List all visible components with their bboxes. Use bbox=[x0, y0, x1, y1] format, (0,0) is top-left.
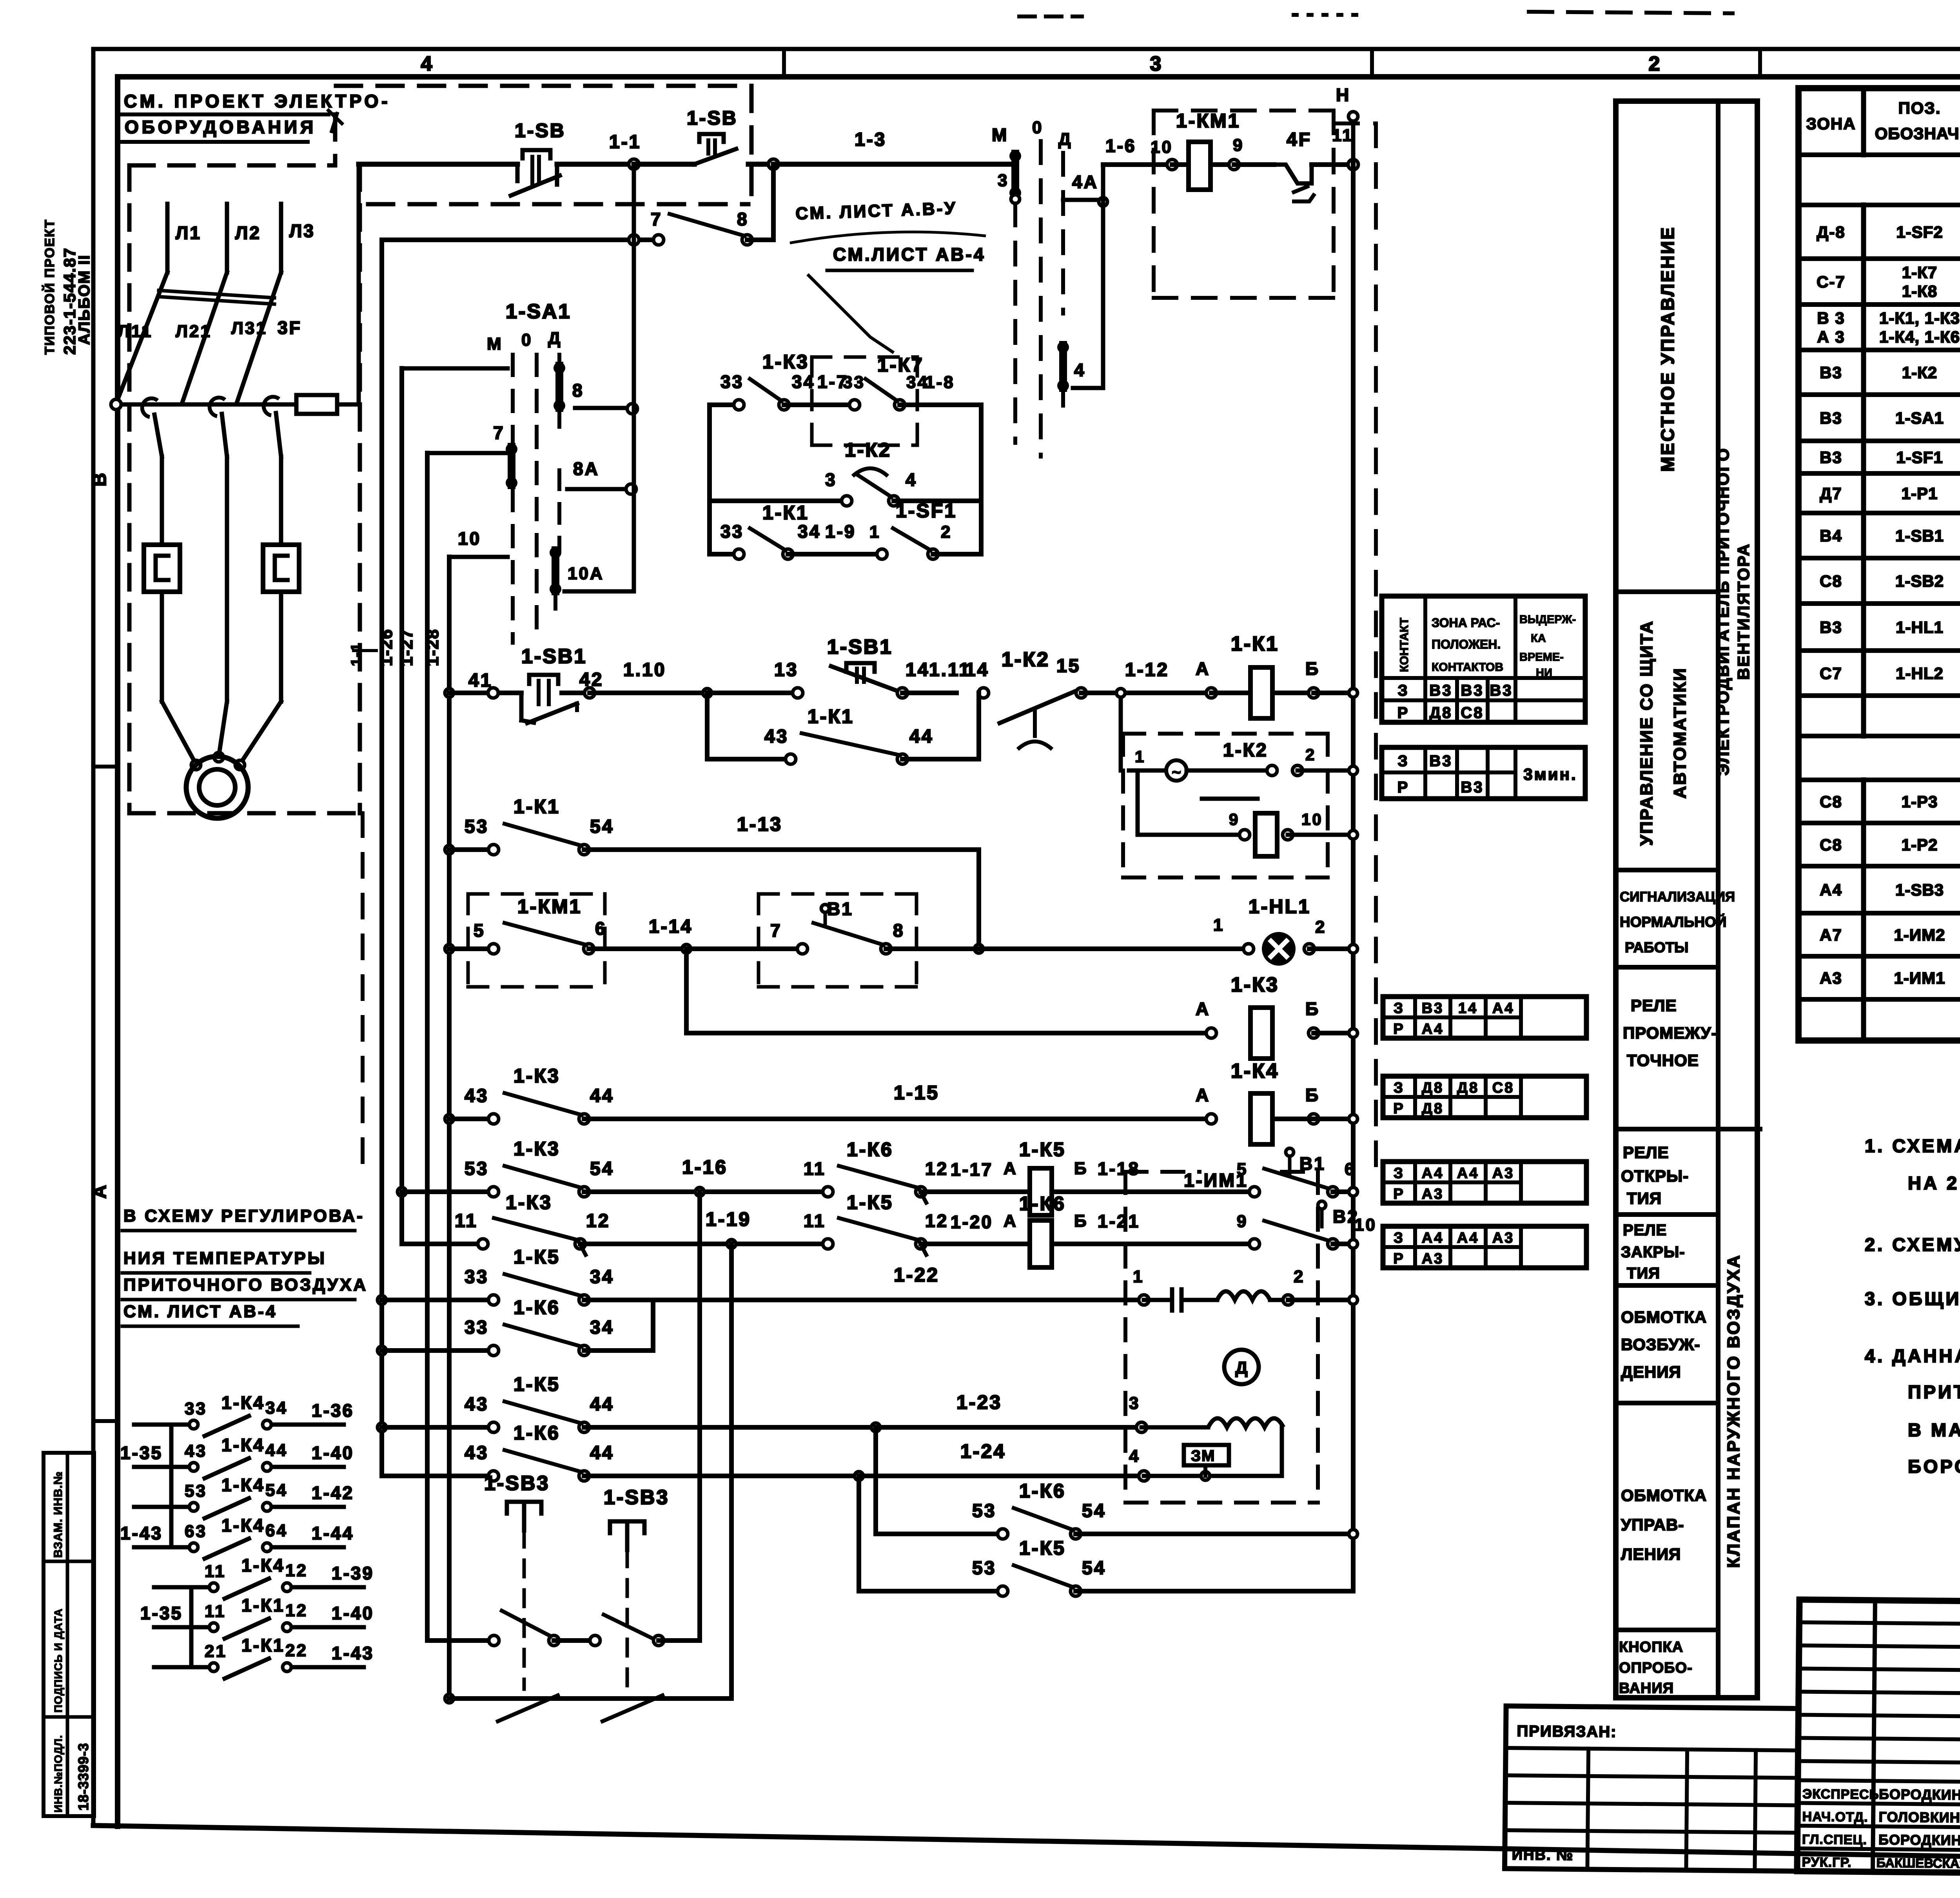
svg-text:4: 4 bbox=[1129, 1447, 1140, 1466]
svg-text:7: 7 bbox=[493, 422, 505, 443]
svg-text:4. ДАННАЯ СХЕМА ПРИМЕНИМА: 4. ДАННАЯ СХЕМА ПРИМЕНИМА ДЛЯ АВТОМАТИЗА… bbox=[1865, 1345, 1960, 1366]
svg-text:1-13: 1-13 bbox=[737, 813, 782, 835]
svg-text:53: 53 bbox=[185, 1481, 207, 1501]
svg-text:12: 12 bbox=[586, 1211, 610, 1231]
contact 8 (Д col) bbox=[555, 366, 563, 408]
svg-text:1-17: 1-17 bbox=[951, 1159, 993, 1180]
svg-text:БОРОДКИН: БОРОДКИН bbox=[1879, 1786, 1960, 1803]
svg-text:9: 9 bbox=[1233, 136, 1244, 155]
svg-text:1-44: 1-44 bbox=[312, 1523, 354, 1543]
svg-text:42: 42 bbox=[579, 669, 603, 690]
svg-text:ГЛ.СПЕЦ.: ГЛ.СПЕЦ. bbox=[1802, 1832, 1867, 1847]
svg-text:МЕСТНОЕ УПРАВЛЕНИЕ: МЕСТНОЕ УПРАВЛЕНИЕ bbox=[1657, 226, 1678, 471]
svg-text:22: 22 bbox=[285, 1641, 308, 1660]
motor feeder wires bbox=[154, 415, 162, 457]
svg-text:ВОЗБУЖ-: ВОЗБУЖ- bbox=[1621, 1335, 1700, 1354]
svg-text:ГОЛОВКИН: ГОЛОВКИН bbox=[1878, 1809, 1960, 1825]
svg-text:13: 13 bbox=[774, 660, 798, 680]
svg-text:ТИЯ: ТИЯ bbox=[1627, 1189, 1662, 1207]
svg-text:Д: Д bbox=[548, 329, 562, 348]
svg-text:1: 1 bbox=[1133, 1267, 1144, 1286]
svg-text:3: 3 bbox=[998, 171, 1009, 190]
svg-text:1-К3: 1-К3 bbox=[514, 1138, 560, 1160]
svg-text:11: 11 bbox=[804, 1211, 826, 1231]
svg-text:1-ИМ2: 1-ИМ2 bbox=[1894, 926, 1945, 944]
lower contacts of 1-SB3 bbox=[445, 1694, 454, 1703]
svg-text:З: З bbox=[1394, 1165, 1405, 1182]
svg-text:8: 8 bbox=[737, 209, 749, 229]
svg-text:АЛЬБОМ II: АЛЬБОМ II bbox=[76, 254, 93, 345]
svg-text:Л21: Л21 bbox=[176, 322, 212, 341]
sheet outer border bbox=[93, 47, 1960, 51]
rung 33 1-K3 34 / 1-K7 bbox=[710, 402, 739, 407]
svg-text:4: 4 bbox=[1074, 360, 1086, 380]
svg-text:1-28: 1-28 bbox=[423, 629, 442, 666]
svg-text:34: 34 bbox=[265, 1398, 288, 1418]
svg-text:КЛАПАН НАРУЖНОГО ВОЗДУХА: КЛАПАН НАРУЖНОГО ВОЗДУХА bbox=[1724, 1254, 1743, 1568]
svg-text:Л31: Л31 bbox=[231, 319, 267, 338]
svg-text:33: 33 bbox=[720, 521, 744, 542]
svg-text:2: 2 bbox=[1305, 745, 1316, 764]
svg-text:1-К1: 1-К1 bbox=[241, 1595, 285, 1615]
svg-text:1-9: 1-9 bbox=[825, 521, 856, 542]
svg-text:53: 53 bbox=[972, 1558, 996, 1579]
thermal element KK1 bbox=[144, 545, 180, 592]
svg-text:А: А bbox=[1196, 999, 1210, 1019]
svg-text:Д8: Д8 bbox=[1422, 1080, 1444, 1096]
svg-text:А3: А3 bbox=[1492, 1230, 1515, 1246]
svg-text:5: 5 bbox=[474, 920, 485, 941]
svg-text:С8: С8 bbox=[1820, 836, 1842, 854]
switch linkage bar bbox=[159, 290, 274, 298]
svg-text:54: 54 bbox=[590, 816, 614, 837]
svg-text:Д: Д bbox=[1235, 1358, 1247, 1378]
svg-text:А3: А3 bbox=[1492, 1165, 1515, 1182]
svg-text:44: 44 bbox=[590, 1394, 614, 1415]
vertical function columns bbox=[1616, 101, 1757, 1698]
drawing frame bbox=[118, 74, 1960, 80]
svg-text:33: 33 bbox=[465, 1267, 488, 1287]
svg-text:14: 14 bbox=[965, 660, 989, 680]
svg-text:1-SВ1: 1-SВ1 bbox=[1895, 527, 1944, 545]
svg-text:1-НL1: 1-НL1 bbox=[1896, 618, 1944, 636]
svg-text:З: З bbox=[1394, 1080, 1405, 1096]
svg-text:ПРИТОЧНОЙ СИСТЕМЫ П2 С ЗАМ: ПРИТОЧНОЙ СИСТЕМЫ П2 С ЗАМЕНОЙ ИНДЕКСА bbox=[1908, 1381, 1960, 1402]
rung 5 1-KM1 6 / 7 B1 8 / lamp 1-HL1 bbox=[445, 944, 454, 953]
rung 33 1-K5 34 wire 1-22 bbox=[377, 1296, 386, 1304]
phase wire Л1 bbox=[165, 204, 170, 272]
svg-text:1-16: 1-16 bbox=[682, 1156, 728, 1178]
svg-text:64: 64 bbox=[265, 1521, 288, 1540]
dashed box around 1-KM1 bbox=[1154, 109, 1334, 112]
right bus N bbox=[1351, 165, 1356, 1591]
svg-text:БОРОВ СОГЛАСНО НОМЕРА СИСТЕ: БОРОВ СОГЛАСНО НОМЕРА СИСТЕМЫ. bbox=[1908, 1456, 1960, 1477]
svg-text:10А: 10А bbox=[568, 564, 604, 583]
svg-text:44: 44 bbox=[909, 726, 933, 747]
svg-text:1-К4: 1-К4 bbox=[1231, 1060, 1279, 1082]
svg-text:1-1: 1-1 bbox=[348, 642, 365, 666]
svg-text:А7: А7 bbox=[1820, 926, 1842, 944]
contact table 1-K4 bbox=[1383, 1076, 1586, 1118]
svg-text:53: 53 bbox=[972, 1501, 996, 1521]
svg-text:В1: В1 bbox=[827, 899, 853, 919]
svg-text:44: 44 bbox=[590, 1086, 614, 1106]
svg-text:ПОДПИСЬ И ДАТА: ПОДПИСЬ И ДАТА bbox=[52, 1608, 64, 1713]
svg-text:В3: В3 bbox=[1461, 682, 1484, 699]
svg-text:Л2: Л2 bbox=[235, 223, 261, 243]
rung 33 1-K1 34 1-9 1 1-SF1 2 bbox=[710, 552, 739, 557]
top power rung bbox=[359, 162, 517, 167]
svg-text:1-40: 1-40 bbox=[332, 1603, 374, 1623]
svg-text:В3: В3 bbox=[1461, 779, 1484, 796]
contact 4 of 1-SA1 bbox=[1059, 345, 1067, 388]
svg-text:1-1: 1-1 bbox=[609, 132, 641, 152]
svg-text:Р: Р bbox=[1397, 704, 1410, 721]
contact table 1-K5 bbox=[1383, 1162, 1586, 1203]
svg-text:43: 43 bbox=[764, 726, 788, 747]
svg-text:3мин.: 3мин. bbox=[1523, 765, 1577, 783]
svg-text:11: 11 bbox=[455, 1211, 478, 1231]
svg-text:Р: Р bbox=[1393, 1186, 1405, 1202]
svg-text:1-22: 1-22 bbox=[894, 1264, 939, 1286]
svg-text:1-42: 1-42 bbox=[312, 1483, 354, 1503]
svg-text:ТИЯ: ТИЯ bbox=[1627, 1265, 1660, 1282]
svg-text:М: М bbox=[992, 125, 1008, 145]
svg-text:Б: Б bbox=[1305, 658, 1320, 679]
svg-text:1-К2: 1-К2 bbox=[1223, 740, 1268, 761]
contact table 1-K6 bbox=[1383, 1226, 1586, 1268]
svg-text:11: 11 bbox=[205, 1562, 226, 1581]
svg-text:1-К1, 1-К3: 1-К1, 1-К3 bbox=[1879, 309, 1960, 327]
svg-text:ВЫДЕРЖ-: ВЫДЕРЖ- bbox=[1519, 613, 1576, 626]
svg-text:1-К1: 1-К1 bbox=[1231, 633, 1279, 655]
svg-text:1-К5: 1-К5 bbox=[1019, 1537, 1066, 1559]
thermal element KK2 bbox=[263, 545, 299, 592]
svg-text:4: 4 bbox=[906, 470, 917, 490]
svg-text:А4: А4 bbox=[1422, 1165, 1444, 1182]
svg-text:1-К4: 1-К4 bbox=[221, 1475, 265, 1495]
svg-text:С8: С8 bbox=[1461, 704, 1484, 721]
svg-text:Б: Б bbox=[1305, 1085, 1320, 1105]
svg-text:1-КМ1: 1-КМ1 bbox=[1176, 110, 1240, 132]
svg-text:3. ОБЩИЙ ВИД ЩИТА СМ . АЛЬ: 3. ОБЩИЙ ВИД ЩИТА СМ . АЛЬБОМ III bbox=[1865, 1288, 1960, 1309]
svg-text:1-SB3: 1-SB3 bbox=[484, 1472, 550, 1495]
svg-text:КНОПКА: КНОПКА bbox=[1619, 1639, 1683, 1655]
svg-text:БОРОДКИН: БОРОДКИН bbox=[1878, 1831, 1960, 1848]
svg-text:РУК.ГР.: РУК.ГР. bbox=[1802, 1855, 1851, 1870]
title block bbox=[1797, 1600, 1960, 1879]
svg-text:6: 6 bbox=[595, 918, 607, 939]
svg-text:Д8: Д8 bbox=[1457, 1080, 1479, 1096]
svg-text:ИНВ.№ПОДЛ.: ИНВ.№ПОДЛ. bbox=[52, 1735, 64, 1813]
svg-text:1.10: 1.10 bbox=[623, 660, 666, 680]
svg-text:10: 10 bbox=[1301, 810, 1323, 828]
svg-text:М: М bbox=[487, 334, 503, 353]
svg-text:В СХЕМУ РЕГУЛИРОВА-: В СХЕМУ РЕГУЛИРОВА- bbox=[123, 1206, 365, 1225]
svg-text:А4: А4 bbox=[1492, 1000, 1515, 1017]
svg-text:ДЕНИЯ: ДЕНИЯ bbox=[1621, 1363, 1681, 1381]
svg-text:7: 7 bbox=[770, 920, 782, 941]
svg-text:ЗОНА РАС-: ЗОНА РАС- bbox=[1432, 616, 1500, 630]
phase wire Л2 bbox=[225, 204, 229, 272]
svg-text:1-14: 1-14 bbox=[649, 916, 693, 937]
svg-text:33: 33 bbox=[843, 373, 865, 392]
svg-text:63: 63 bbox=[185, 1522, 207, 1541]
time relay 1-K2 dashed box bbox=[1123, 732, 1328, 736]
svg-text:ПРИТОЧНОГО ВОЗДУХА: ПРИТОЧНОГО ВОЗДУХА bbox=[123, 1275, 368, 1294]
svg-text:Л1: Л1 bbox=[176, 223, 201, 243]
svg-text:СМ. ЛИСТ АВ-4: СМ. ЛИСТ АВ-4 bbox=[123, 1302, 277, 1321]
svg-text:14: 14 bbox=[1458, 1000, 1478, 1017]
svg-text:1-18: 1-18 bbox=[1098, 1158, 1140, 1179]
svg-text:1-SF2: 1-SF2 bbox=[1896, 223, 1943, 241]
svg-text:С-7: С-7 bbox=[1817, 273, 1846, 291]
svg-text:КОНТАКТОВ: КОНТАКТОВ bbox=[1432, 661, 1503, 674]
contact table 1-K2 bbox=[1382, 747, 1585, 799]
svg-text:С8: С8 bbox=[1492, 1080, 1515, 1096]
svg-text:ЭКСПРЕСЬ: ЭКСПРЕСЬ bbox=[1802, 1787, 1879, 1802]
svg-text:3: 3 bbox=[825, 470, 837, 490]
svg-text:В3: В3 bbox=[1820, 363, 1842, 382]
svg-text:З: З bbox=[1394, 1230, 1405, 1246]
svg-text:З: З bbox=[1397, 752, 1409, 770]
svg-text:НИЯ ТЕМПЕРАТУРЫ: НИЯ ТЕМПЕРАТУРЫ bbox=[123, 1249, 327, 1268]
svg-text:1.11: 1.11 bbox=[929, 660, 971, 680]
svg-text:11: 11 bbox=[205, 1602, 226, 1621]
svg-text:9: 9 bbox=[1229, 810, 1240, 828]
svg-text:33: 33 bbox=[465, 1317, 488, 1338]
svg-text:0: 0 bbox=[521, 330, 532, 350]
svg-text:В3: В3 bbox=[1820, 409, 1842, 427]
svg-text:Д-8: Д-8 bbox=[1817, 223, 1845, 241]
svg-text:12: 12 bbox=[285, 1561, 308, 1580]
wire to control feed bbox=[357, 164, 361, 404]
phase wire Л3 bbox=[279, 204, 283, 272]
svg-text:1-23: 1-23 bbox=[956, 1391, 1002, 1413]
svg-text:Б: Б bbox=[1074, 1159, 1088, 1178]
svg-text:РАБОТЫ: РАБОТЫ bbox=[1625, 939, 1688, 955]
svg-text:44: 44 bbox=[590, 1443, 614, 1463]
svg-text:ПРОМЕЖУ-: ПРОМЕЖУ- bbox=[1623, 1024, 1717, 1042]
dashed box 1-KM1 bbox=[468, 892, 605, 896]
svg-text:Р: Р bbox=[1393, 1251, 1405, 1267]
svg-text:1-К3: 1-К3 bbox=[762, 351, 809, 373]
svg-text:1-35: 1-35 bbox=[120, 1443, 163, 1463]
svg-text:1-SB1: 1-SB1 bbox=[827, 636, 893, 658]
svg-text:Р: Р bbox=[1397, 779, 1410, 796]
svg-text:8: 8 bbox=[572, 380, 584, 401]
svg-text:1-8: 1-8 bbox=[925, 373, 955, 392]
svg-text:1-К2: 1-К2 bbox=[1902, 363, 1937, 382]
svg-text:ОБМОТКА: ОБМОТКА bbox=[1621, 1308, 1707, 1326]
svg-text:РЕЛЕ: РЕЛЕ bbox=[1631, 996, 1677, 1015]
svg-text:1-SА1: 1-SА1 bbox=[1895, 409, 1944, 427]
rung 53 1-K3 54 wire 1-16 coil 1-K5 bbox=[397, 1187, 406, 1196]
svg-text:ОБМОТКА: ОБМОТКА bbox=[1621, 1486, 1707, 1505]
rung 7-8 bbox=[382, 237, 659, 242]
svg-text:34: 34 bbox=[590, 1267, 614, 1287]
svg-text:44: 44 bbox=[265, 1441, 288, 1460]
svg-text:В МАРКИРОВКЕ ПРОВОДОВ И В: В МАРКИРОВКЕ ПРОВОДОВ И В ОБОЗНАЧЕНИЯХ П… bbox=[1908, 1419, 1960, 1440]
svg-text:6: 6 bbox=[1345, 1160, 1356, 1179]
svg-text:Б: Б bbox=[1305, 999, 1320, 1019]
svg-text:43: 43 bbox=[465, 1394, 488, 1415]
svg-text:ОТКРЫ-: ОТКРЫ- bbox=[1621, 1167, 1689, 1185]
svg-text:СИГНАЛИЗАЦИЯ: СИГНАЛИЗАЦИЯ bbox=[1620, 889, 1735, 905]
long vertical wires bbox=[379, 240, 384, 1476]
svg-text:ПРИВЯЗАН:: ПРИВЯЗАН: bbox=[1517, 1722, 1617, 1740]
svg-text:9: 9 bbox=[1237, 1212, 1248, 1231]
svg-text:4: 4 bbox=[421, 53, 434, 75]
svg-text:В3: В3 bbox=[1820, 618, 1842, 636]
svg-text:0: 0 bbox=[1032, 118, 1043, 137]
svg-text:~: ~ bbox=[1172, 764, 1181, 781]
svg-text:2: 2 bbox=[1294, 1267, 1305, 1286]
svg-text:43: 43 bbox=[465, 1086, 488, 1106]
svg-text:ВАНИЯ: ВАНИЯ bbox=[1619, 1680, 1674, 1697]
svg-text:1-12: 1-12 bbox=[1125, 660, 1169, 680]
rung 53 1-K1 54 wire 1-13 bbox=[445, 845, 454, 854]
zone ticks top bbox=[782, 49, 786, 77]
svg-text:8А: 8А bbox=[573, 459, 599, 479]
svg-text:БАКШЕВСКАЯ: БАКШЕВСКАЯ bbox=[1876, 1855, 1960, 1871]
svg-text:54: 54 bbox=[265, 1481, 288, 1500]
svg-text:1-21: 1-21 bbox=[1098, 1211, 1140, 1231]
svg-text:43: 43 bbox=[185, 1441, 207, 1461]
svg-text:А3: А3 bbox=[1820, 969, 1842, 987]
svg-text:ВЕНТИЛЯТОРА: ВЕНТИЛЯТОРА bbox=[1734, 543, 1753, 680]
leader line bbox=[328, 111, 342, 123]
svg-text:1-К3: 1-К3 bbox=[1231, 973, 1279, 996]
rung 43 1-K5 44 wire 1-23 bbox=[377, 1423, 386, 1432]
svg-text:1-К1: 1-К1 bbox=[762, 502, 809, 524]
svg-text:НОРМАЛЬНОЙ: НОРМАЛЬНОЙ bbox=[1620, 914, 1726, 930]
contact table 1-K1 bbox=[1382, 596, 1585, 722]
contact 10A (Д col) bbox=[552, 550, 559, 591]
svg-text:34: 34 bbox=[590, 1317, 614, 1338]
svg-text:1-43: 1-43 bbox=[120, 1523, 163, 1543]
svg-text:18-3399-3: 18-3399-3 bbox=[75, 1743, 91, 1811]
svg-text:Д7: Д7 bbox=[1820, 484, 1842, 503]
svg-text:34: 34 bbox=[798, 521, 821, 542]
svg-text:ВРЕМЕ-: ВРЕМЕ- bbox=[1519, 651, 1564, 663]
svg-text:1-НL2: 1-НL2 bbox=[1896, 664, 1944, 683]
svg-text:1-ИМ1: 1-ИМ1 bbox=[1894, 969, 1945, 987]
svg-text:1-SF1: 1-SF1 bbox=[1896, 448, 1943, 467]
svg-text:1-Р2: 1-Р2 bbox=[1902, 836, 1938, 854]
svg-text:1-К4: 1-К4 bbox=[241, 1555, 285, 1575]
svg-text:1-К2: 1-К2 bbox=[845, 439, 891, 461]
svg-text:1-К3: 1-К3 bbox=[506, 1191, 552, 1213]
svg-text:1-39: 1-39 bbox=[332, 1563, 374, 1583]
block 1-K3/1-K7/1-K2/1-SF1 bbox=[707, 405, 712, 554]
svg-text:Д: Д bbox=[1058, 130, 1072, 149]
svg-text:С7: С7 bbox=[1820, 664, 1842, 683]
rung 43 1-K3 44 wire 1-15 coil 1-K4 bbox=[445, 1115, 454, 1123]
svg-text:10: 10 bbox=[1354, 1215, 1377, 1235]
svg-text:З: З bbox=[1394, 1000, 1405, 1017]
svg-text:ТОЧНОЕ: ТОЧНОЕ bbox=[1627, 1051, 1699, 1070]
svg-text:ОПРОБО-: ОПРОБО- bbox=[1619, 1660, 1693, 1676]
svg-text:НАЧ.ОТД.: НАЧ.ОТД. bbox=[1802, 1809, 1868, 1825]
rung 11 1-K3 12 wire 1-19 coil 1-K6 bbox=[399, 1192, 404, 1244]
svg-text:В3: В3 bbox=[1422, 1000, 1444, 1017]
motor Д circle bbox=[1224, 1350, 1259, 1384]
svg-text:А: А bbox=[1004, 1159, 1018, 1178]
svg-text:1-SB: 1-SB bbox=[515, 120, 566, 141]
fold marks top bbox=[1019, 15, 1082, 18]
svg-text:7: 7 bbox=[651, 209, 662, 229]
svg-text:1-SB1: 1-SB1 bbox=[521, 645, 587, 668]
svg-text:1-SF1: 1-SF1 bbox=[896, 500, 957, 522]
buttons 1-SB3 bbox=[427, 1638, 494, 1643]
svg-text:43: 43 bbox=[465, 1443, 488, 1463]
svg-text:Р: Р bbox=[1393, 1100, 1405, 1117]
svg-text:1-26: 1-26 bbox=[377, 629, 396, 666]
svg-text:1-SВ3: 1-SВ3 bbox=[1895, 881, 1944, 899]
svg-text:НИ: НИ bbox=[1536, 667, 1552, 679]
tap 8 bbox=[575, 406, 632, 410]
svg-text:СМ.ЛИСТ АВ-4: СМ.ЛИСТ АВ-4 bbox=[833, 244, 985, 265]
switch fixed contact hooks bbox=[142, 398, 158, 417]
svg-text:Л3: Л3 bbox=[289, 221, 315, 241]
svg-text:54: 54 bbox=[590, 1158, 614, 1179]
svg-text:КОНТАКТ: КОНТАКТ bbox=[1398, 618, 1411, 672]
svg-text:15: 15 bbox=[1056, 656, 1080, 676]
svg-text:А: А bbox=[1004, 1211, 1018, 1231]
svg-text:53: 53 bbox=[465, 1158, 488, 1179]
rung coil 1-K3 bbox=[684, 949, 689, 1033]
svg-text:21: 21 bbox=[205, 1642, 227, 1661]
motor M bbox=[162, 702, 196, 764]
svg-text:В3: В3 bbox=[1820, 448, 1842, 467]
svg-text:Л11: Л11 bbox=[118, 322, 152, 341]
svg-text:ПОЛОЖЕН.: ПОЛОЖЕН. bbox=[1432, 637, 1501, 651]
svg-text:С8: С8 bbox=[1820, 792, 1842, 811]
svg-text:1-27: 1-27 bbox=[397, 629, 416, 666]
svg-text:3: 3 bbox=[1129, 1394, 1140, 1413]
svg-text:З: З bbox=[1397, 682, 1409, 699]
rung 33 1-K6 34 bbox=[377, 1346, 386, 1355]
contact 7 (М col) bbox=[508, 447, 515, 485]
svg-text:1: 1 bbox=[1135, 747, 1145, 766]
svg-text:А4: А4 bbox=[1422, 1021, 1444, 1037]
svg-text:1-43: 1-43 bbox=[332, 1643, 374, 1663]
svg-text:12: 12 bbox=[925, 1158, 948, 1179]
svg-text:1-35: 1-35 bbox=[140, 1603, 183, 1623]
svg-text:НА 2: НА 2 bbox=[1908, 1173, 1959, 1193]
svg-text:ВЗАМ. ИНВ.№: ВЗАМ. ИНВ.№ bbox=[52, 1471, 65, 1558]
svg-text:3: 3 bbox=[1150, 53, 1163, 75]
svg-text:А4: А4 bbox=[1422, 1230, 1444, 1246]
svg-text:ОБОЗНАЧ.: ОБОЗНАЧ. bbox=[1875, 124, 1960, 143]
svg-text:СМ. ПРОЕКТ ЭЛЕКТРО-: СМ. ПРОЕКТ ЭЛЕКТРО- bbox=[124, 91, 391, 111]
svg-text:1-15: 1-15 bbox=[894, 1082, 939, 1104]
svg-text:1-К6: 1-К6 bbox=[514, 1422, 560, 1444]
left margin zone letters bbox=[93, 765, 118, 769]
svg-text:33: 33 bbox=[720, 372, 744, 392]
svg-text:1-К6: 1-К6 bbox=[1019, 1480, 1066, 1502]
svg-text:АВТОМАТИКИ: АВТОМАТИКИ bbox=[1670, 667, 1690, 798]
svg-text:1-К4, 1-К6: 1-К4, 1-К6 bbox=[1879, 328, 1960, 346]
svg-text:1-К5: 1-К5 bbox=[514, 1373, 560, 1395]
svg-text:РЕЛЕ: РЕЛЕ bbox=[1623, 1222, 1667, 1239]
dashed box valve actuator bbox=[1125, 1170, 1200, 1174]
svg-text:1-К6: 1-К6 bbox=[514, 1296, 560, 1318]
svg-text:А4: А4 bbox=[1457, 1165, 1479, 1182]
svg-text:2. СХЕМУ АВТОМАТИЗАЦИИ ВЕНТ: 2. СХЕМУ АВТОМАТИЗАЦИИ ВЕНТСИСТЕМ СМ. ЛИ… bbox=[1865, 1234, 1960, 1255]
svg-text:Д8: Д8 bbox=[1422, 1100, 1444, 1117]
